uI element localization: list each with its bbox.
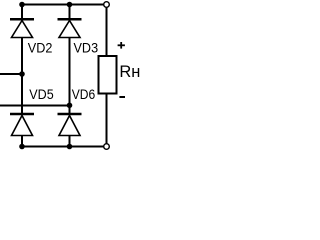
svg-text:VD3: VD3 (74, 39, 99, 55)
wire top rail (+) (22, 4, 104, 6)
minus sign (119, 96, 125, 98)
wire resistor bottom to terminal (106, 94, 108, 145)
diode VD5 triangle (12, 116, 33, 136)
wire AC input 1 (0, 73, 23, 75)
wire terminal to resistor top (106, 7, 108, 56)
terminal circle top right (104, 2, 110, 8)
wire AC input 2 (0, 105, 70, 107)
terminal circle bottom right (104, 144, 110, 150)
node dot VD5 bottom junction (19, 144, 25, 150)
node dot VD2 top junction (19, 2, 25, 8)
diode VD3 cathode bar (58, 18, 82, 21)
node dot VD3 top junction (67, 2, 73, 8)
resistor RH body (99, 56, 117, 94)
svg-text:VD5: VD5 (29, 86, 54, 102)
diode VD5 cathode bar (10, 113, 34, 116)
diode VD3 triangle (59, 21, 80, 38)
wire node B to VD6 cathode (69, 106, 71, 115)
node B dot (AC2 junction) (67, 103, 73, 109)
wire VD3 anode to node B (69, 38, 71, 106)
diode VD2 cathode bar (10, 18, 34, 21)
node A dot (AC1 junction) (19, 71, 25, 77)
wire bottom rail (-) (22, 146, 104, 148)
diode VD6 cathode bar (58, 113, 82, 116)
diode VD6 triangle (59, 116, 80, 136)
wire VD3 cathode stub (69, 5, 71, 20)
wire VD5 anode to bottom rail (21, 136, 23, 147)
wire VD6 anode to bottom rail (69, 136, 71, 147)
wire VD2 cathode stub (21, 5, 23, 20)
plus sign (118, 42, 125, 49)
wire node A to VD5 cathode (21, 74, 23, 114)
svg-text:Rн: Rн (119, 63, 140, 81)
svg-text:VD2: VD2 (28, 39, 53, 55)
node dot VD6 bottom junction (67, 144, 73, 150)
wire VD2 anode to node A (21, 38, 23, 75)
diode VD2 triangle (12, 21, 33, 38)
svg-text:VD6: VD6 (72, 86, 96, 102)
